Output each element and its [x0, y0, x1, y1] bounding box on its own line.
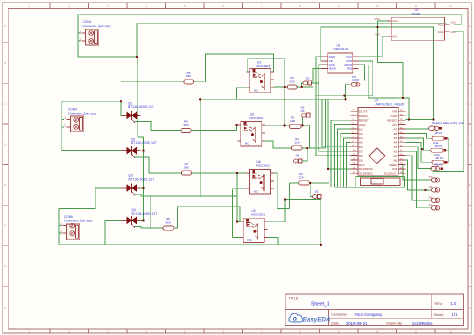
svg-text:1: 1	[79, 29, 81, 33]
wire arduino D4	[338, 129, 351, 187]
svg-text:GND: GND	[352, 78, 360, 82]
svg-text:D3: D3	[306, 77, 310, 81]
svg-text:VO-: VO-	[375, 32, 380, 36]
wire Rright	[446, 161, 449, 163]
svg-text:Company:: Company:	[331, 312, 347, 316]
svg-text:3V3: 3V3	[392, 167, 398, 171]
svg-text:BT136-600E,127: BT136-600E,127	[128, 105, 154, 109]
svg-text:C: C	[4, 102, 6, 106]
svg-text:Sheet_1: Sheet_1	[311, 301, 330, 307]
svg-text:D5: D5	[301, 109, 305, 113]
svg-text:D12/MISO: D12/MISO	[359, 172, 374, 176]
triac Q4	[122, 208, 158, 228]
wire power rail to header	[321, 27, 434, 120]
svg-text:NC: NC	[254, 88, 259, 92]
pin header P2	[429, 175, 440, 182]
wire Rright	[446, 149, 449, 151]
wire GND flag drop	[346, 84, 352, 99]
nrf24l01 module U1	[322, 44, 359, 73]
wire U9 pin4	[268, 238, 278, 245]
wire U6 drop	[236, 173, 238, 222]
wire U5 pin6 to R1	[265, 124, 289, 126]
wire riser x328	[328, 99, 350, 169]
svg-text:A7: A7	[429, 203, 433, 207]
svg-text:Header-Male-2.54_1x2: Header-Male-2.54_1x2	[432, 121, 464, 125]
wire Rright	[446, 137, 449, 139]
svg-text:D: D	[469, 142, 471, 146]
wire Q3 gate	[135, 194, 141, 196]
svg-text:A1: A1	[394, 154, 398, 158]
svg-text:2: 2	[64, 123, 66, 127]
wire R4 out	[302, 147, 325, 149]
resistor R11	[431, 141, 446, 153]
svg-text:560: 560	[186, 74, 191, 78]
svg-text:3: 3	[107, 4, 109, 8]
arduino nano U7	[350, 98, 405, 185]
wire CON4 pin1 stub	[62, 119, 64, 121]
wire CON1 to neutral rail	[137, 24, 447, 57]
svg-text:A6: A6	[394, 132, 398, 136]
wire R1 out	[297, 125, 309, 148]
svg-text:D2: D2	[315, 189, 319, 193]
svg-text:F: F	[469, 224, 471, 228]
svg-text:220: 220	[298, 175, 303, 179]
svg-text:A4: A4	[394, 141, 398, 145]
svg-text:220: 220	[290, 119, 295, 123]
diode D3	[303, 77, 312, 86]
resistor R10	[432, 131, 447, 140]
wire usb frame c	[334, 177, 404, 188]
resistor R8	[163, 217, 174, 230]
wire A7 to R10	[406, 134, 432, 139]
wire usb frame	[356, 176, 405, 178]
triac Q3	[122, 173, 155, 195]
wire arduino D7	[347, 142, 351, 187]
svg-text:ARDUINO_NANO: ARDUINO_NANO	[376, 102, 405, 106]
wire Q1-Q2 bus b	[138, 137, 144, 151]
svg-text:P2: P2	[429, 175, 433, 179]
wire A4 to R13	[406, 147, 432, 169]
wire VO- net	[359, 36, 391, 57]
wire U3 pin6	[247, 59, 285, 126]
wire NRF MISO	[313, 68, 322, 83]
optocoupler U5	[238, 112, 266, 146]
wire R3 to D3	[297, 86, 313, 88]
resistor R7	[182, 162, 192, 175]
wire arduino D3	[334, 125, 350, 188]
resistor R12	[432, 153, 447, 165]
gnd header P5	[351, 75, 360, 86]
wire R common	[448, 138, 450, 162]
svg-text:VO+: VO+	[375, 17, 381, 21]
wire NRF CSN	[359, 61, 373, 96]
svg-text:BT136-600E,127: BT136-600E,127	[132, 212, 158, 216]
wires group	[59, 15, 464, 245]
svg-text:10: 10	[376, 4, 379, 8]
svg-text:+5V: +5V	[392, 123, 397, 127]
svg-text:A0: A0	[394, 158, 398, 162]
connector CON6	[60, 215, 92, 240]
svg-text:B: B	[5, 61, 7, 65]
wire gate4 to R8	[135, 227, 163, 229]
svg-text:G: G	[469, 264, 471, 268]
wire arduino D5	[341, 134, 351, 188]
diode D4	[294, 153, 303, 163]
svg-text:B: B	[469, 61, 471, 65]
svg-text:6: 6	[222, 4, 224, 8]
resistor R5	[184, 71, 194, 84]
svg-text:A7: A7	[394, 127, 398, 131]
svg-text:4B 1K: 4B 1K	[435, 163, 443, 167]
svg-text:9: 9	[338, 4, 340, 8]
wire R5 to U3	[194, 54, 274, 82]
svg-text:560: 560	[183, 123, 188, 127]
svg-text:MOC3021: MOC3021	[250, 116, 264, 120]
wire R2 out	[309, 182, 329, 184]
wire Q2-Q3 bus	[143, 151, 145, 188]
wire drop x320	[320, 200, 322, 245]
resistor R3	[288, 76, 298, 89]
wire U6 pin6	[274, 173, 290, 209]
resistor R6	[181, 120, 191, 133]
svg-text:A6: A6	[429, 196, 433, 200]
svg-text:1/1: 1/1	[452, 312, 458, 317]
wire U5 pin4	[265, 141, 291, 148]
wire CON6 loop top	[59, 207, 95, 209]
wire to R2	[289, 182, 298, 184]
svg-text:AC-: AC-	[451, 30, 456, 34]
svg-text:4B 1K: 4B 1K	[435, 131, 443, 135]
wire Q3 MT link	[137, 187, 144, 189]
svg-text:4: 4	[145, 4, 147, 8]
triac Q1	[122, 102, 154, 123]
svg-text:4B 1K: 4B 1K	[435, 144, 443, 148]
svg-text:TITLE:: TITLE:	[289, 297, 300, 301]
svg-text:Connector_2pin copy: Connector_2pin copy	[64, 219, 93, 223]
wire R7 to U6 pin1	[192, 172, 246, 174]
wire D2 branch	[310, 183, 312, 197]
svg-text:D5: D5	[359, 141, 363, 145]
wire NRF GND	[316, 57, 351, 156]
wire NRF CE	[320, 27, 323, 61]
svg-text:1: 1	[64, 116, 66, 120]
svg-text:D4: D4	[296, 153, 300, 157]
wire drop D8	[321, 99, 323, 147]
svg-text:D11/MOSI: D11/MOSI	[359, 167, 373, 171]
wire A0 to P3	[403, 165, 431, 180]
wire usb frame b	[355, 177, 357, 188]
wire arduino D6	[344, 138, 351, 187]
wire mid drop	[199, 99, 201, 196]
svg-text:NC: NC	[248, 238, 253, 242]
pin header P6	[429, 203, 440, 210]
wire Q2 gate	[135, 157, 182, 173]
svg-text:D4: D4	[359, 136, 363, 140]
svg-text:8: 8	[299, 4, 301, 8]
wire +5V to header	[406, 128, 429, 130]
wire U9 pin6	[268, 200, 321, 222]
svg-text:4B 1K: 4B 1K	[436, 156, 444, 160]
svg-text:AREF: AREF	[389, 163, 397, 167]
svg-text:7: 7	[261, 4, 263, 8]
wire A3 to P6	[406, 151, 432, 208]
wire Q4 MT link	[137, 219, 144, 221]
wire CON6 pin1 stub	[59, 225, 62, 227]
wire CON4 loop	[62, 101, 126, 150]
wire AC- bus	[433, 32, 464, 172]
wire U3 cathode	[236, 88, 246, 100]
svg-text:BT136-600E,127: BT136-600E,127	[131, 141, 157, 145]
wire A1 to P4	[406, 160, 432, 190]
wire NRF MOSI out	[359, 65, 365, 81]
svg-text:D13/SCK: D13/SCK	[384, 172, 397, 176]
pin header P4	[429, 196, 440, 203]
svg-text:D0/RA: D0/RA	[359, 114, 368, 118]
svg-text:AC1: AC1	[438, 22, 444, 26]
svg-text:C: C	[469, 102, 471, 106]
svg-text:560: 560	[184, 165, 189, 169]
wire rail A	[316, 95, 373, 97]
resistor R1	[290, 116, 302, 129]
wire CON6 pin2 stub	[59, 232, 62, 234]
svg-text:2: 2	[79, 37, 81, 41]
connector CON4	[64, 108, 96, 132]
svg-text:2: 2	[60, 230, 62, 234]
svg-text:D8: D8	[359, 154, 363, 158]
svg-text:560: 560	[165, 221, 170, 225]
resistor R4	[292, 137, 303, 150]
wire arduino D2	[331, 120, 350, 187]
wire CON4 to Q1	[121, 101, 126, 115]
svg-text:GND: GND	[359, 123, 367, 127]
svg-text:Connector_2pin copy: Connector_2pin copy	[83, 24, 112, 28]
svg-text:12: 12	[449, 4, 452, 8]
wire R4 riser	[324, 99, 326, 148]
optocoupler U9	[240, 209, 268, 243]
svg-text:A5: A5	[394, 136, 398, 140]
wire U9 pin2 stub	[233, 237, 241, 239]
svg-text:VIN: VIN	[392, 110, 397, 114]
wire CON4 pin2 stub	[62, 126, 64, 128]
optocoupler U3	[247, 61, 275, 93]
svg-text:H: H	[4, 306, 6, 310]
svg-text:REV:: REV:	[435, 302, 443, 306]
wire D4 branch	[302, 148, 308, 161]
svg-text:AC2: AC2	[438, 30, 444, 34]
svg-text:2019-09-21: 2019-09-21	[346, 321, 368, 326]
svg-text:1.0: 1.0	[451, 301, 457, 306]
svg-text:A5: A5	[429, 185, 433, 189]
svg-text:1: 1	[60, 222, 62, 226]
svg-text:E: E	[469, 183, 471, 187]
svg-text:A3: A3	[394, 145, 398, 149]
wire AC live top rail	[78, 15, 462, 25]
wire CON1 left loop	[78, 15, 137, 57]
wire A5 to R12	[406, 142, 432, 162]
svg-text:A: A	[5, 24, 7, 28]
wire CON6 to Q3	[95, 188, 126, 208]
connector CON1	[79, 20, 111, 45]
wire U6 pin2 link	[233, 188, 247, 190]
triac Q2	[122, 138, 157, 158]
wire R8 riser	[150, 196, 152, 228]
svg-text:A2: A2	[394, 150, 398, 154]
svg-text:IRQ: IRQ	[347, 67, 353, 71]
svg-text:220: 220	[289, 79, 294, 83]
svg-text:RESET: RESET	[359, 119, 369, 123]
svg-text:D7: D7	[359, 150, 363, 154]
power module U2	[375, 8, 457, 40]
svg-text:220: 220	[294, 140, 299, 144]
optocoupler U6	[246, 160, 274, 194]
svg-text:2: 2	[68, 4, 70, 8]
svg-text:Sheet:: Sheet:	[434, 313, 444, 317]
svg-text:AC+: AC+	[451, 20, 457, 24]
components group	[60, 8, 463, 246]
EasyEDA logo	[289, 313, 331, 323]
wire U6-U9 link	[232, 189, 234, 238]
title block	[285, 294, 463, 326]
svg-text:NC: NC	[254, 190, 259, 194]
svg-text:D1/TX: D1/TX	[359, 110, 368, 114]
wire VO- branch to VIN	[368, 65, 409, 120]
svg-text:MOC3021: MOC3021	[256, 163, 270, 167]
wire D3 right lead	[311, 82, 319, 84]
wire R2 left drop	[288, 183, 290, 209]
wire Q1-Q2 bus a	[137, 115, 139, 136]
wire R8 to U9	[174, 207, 240, 228]
pin header P7	[431, 163, 444, 171]
resistor R2	[298, 172, 309, 185]
header male 1x2	[429, 121, 464, 131]
wire Q1 gate	[135, 122, 181, 131]
svg-text:BT136-600E,127: BT136-600E,127	[129, 177, 155, 181]
wire VO+ net	[377, 21, 403, 98]
wire U3 pin4 to R3	[273, 86, 287, 88]
svg-text:VO-: VO-	[392, 35, 397, 39]
wire CON1 pin1 stub	[78, 32, 81, 34]
wire Q3-Q4 bus	[143, 188, 145, 220]
svg-text:MOC3021: MOC3021	[251, 212, 265, 216]
wire Q1 MT to CON1	[136, 57, 138, 115]
svg-text:D: D	[4, 142, 6, 146]
diode D2	[313, 189, 322, 198]
wire D3 left lead	[302, 83, 303, 87]
svg-text:MISO: MISO	[329, 67, 337, 71]
svg-text:D6: D6	[359, 145, 363, 149]
svg-text:NC: NC	[245, 142, 250, 146]
wire NRF SCK	[319, 65, 351, 152]
svg-text:Date:: Date:	[331, 322, 340, 326]
svg-text:Connector_2pin copy: Connector_2pin copy	[68, 111, 97, 115]
svg-text:RESET: RESET	[387, 119, 397, 123]
svg-text:GND: GND	[391, 114, 399, 118]
wire R6 to U5 pin1	[191, 125, 238, 130]
svg-text:A: A	[469, 24, 471, 28]
wire CON1 pin2 stub	[78, 40, 81, 42]
wire arduino D8	[322, 146, 350, 148]
wire A6 to R11	[406, 138, 431, 150]
svg-text:VO+: VO+	[392, 19, 398, 23]
svg-text:D2: D2	[359, 127, 363, 131]
svg-text:NRF24L01: NRF24L01	[334, 47, 349, 51]
svg-text:E: E	[5, 183, 7, 187]
svg-text:Your Company: Your Company	[355, 312, 383, 317]
diode D5	[301, 106, 311, 118]
svg-text:HLINK: HLINK	[412, 12, 422, 16]
wire CON6 left	[59, 208, 321, 244]
svg-text:1: 1	[28, 4, 30, 8]
svg-text:D10: D10	[359, 163, 365, 167]
svg-text:D9: D9	[359, 158, 363, 162]
svg-text:EasyEDA: EasyEDA	[303, 317, 331, 324]
pin header P3	[429, 185, 440, 192]
svg-text:Drawn By:: Drawn By:	[386, 322, 403, 326]
wire CON6 to Q4	[105, 220, 126, 244]
wire D5 lead	[302, 117, 304, 125]
wire A2 to P5	[406, 156, 432, 201]
svg-text:F: F	[5, 224, 7, 228]
svg-text:H: H	[469, 306, 471, 310]
svg-text:so1995sha: so1995sha	[412, 321, 433, 326]
svg-text:D3: D3	[359, 132, 363, 136]
wire rail B	[200, 98, 345, 100]
wire mid rail	[141, 195, 237, 197]
svg-text:MOC3021: MOC3021	[257, 64, 271, 68]
wire R5 load line	[121, 81, 184, 83]
svg-text:5: 5	[184, 4, 186, 8]
svg-text:G: G	[4, 264, 6, 268]
